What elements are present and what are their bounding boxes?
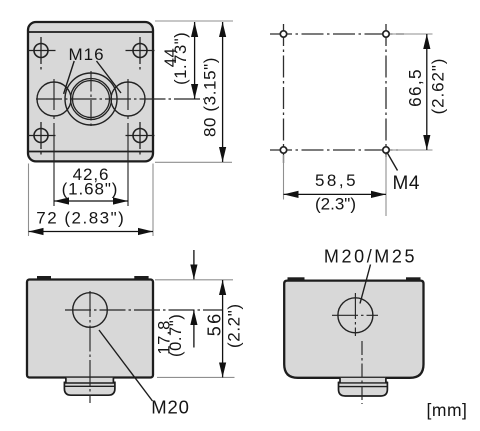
- svg-text:(2.62"): (2.62"): [429, 58, 448, 115]
- vertical centerline left hole column: [283, 24, 285, 163]
- mounting tab right: [134, 276, 148, 281]
- right side hole: [111, 82, 145, 116]
- center hole M16 outer circle: [65, 73, 117, 125]
- svg-text:M20: M20: [151, 396, 189, 417]
- mounting tab right: [406, 277, 421, 282]
- gland bump line 2: [339, 386, 388, 388]
- gland bump line 1: [65, 382, 115, 384]
- gland bump: [64, 378, 115, 396]
- mounting tab left: [288, 277, 305, 282]
- gland bump line 2: [64, 385, 115, 387]
- box body: [284, 281, 423, 378]
- svg-text:66,5: 66,5: [405, 68, 425, 107]
- extension line bottom right of plate: [155, 161, 232, 163]
- drill hole top-right: [383, 31, 389, 37]
- vertical centerline right hole column: [385, 24, 387, 157]
- svg-text:58,5: 58,5: [315, 171, 358, 190]
- svg-text:(1.73"): (1.73"): [172, 32, 190, 85]
- dimension 17.8 lower line: [193, 310, 195, 348]
- dimension line 72: [29, 231, 154, 233]
- horizontal centerline of hole: [332, 314, 378, 316]
- dimension 17.8 upper line: [193, 250, 195, 280]
- leader M4: [387, 152, 398, 171]
- gland bump: [339, 378, 388, 396]
- dimension line 58.5: [284, 193, 387, 195]
- svg-text:[mm]: [mm]: [427, 400, 468, 420]
- vertical centerline center hole: [90, 71, 92, 127]
- extension line 72 left: [28, 164, 30, 237]
- extension line 56 top: [155, 279, 233, 281]
- drill hole bottom-left: [280, 147, 286, 153]
- leader M20/M25: [360, 265, 371, 304]
- vertical centerline through gland: [361, 341, 363, 404]
- center hole thread ring outer: [71, 79, 112, 120]
- extension line 72 right: [152, 164, 154, 237]
- svg-text:M20/M25: M20/M25: [324, 247, 417, 267]
- leader M16 to right hole: [97, 61, 122, 93]
- svg-text:80 (3.15"): 80 (3.15"): [201, 57, 220, 137]
- vertical centerline of box: [89, 291, 91, 403]
- extension line 58.5 right: [385, 155, 387, 216]
- svg-text:(1.68"): (1.68"): [62, 180, 119, 199]
- drill hole top-left: [280, 31, 286, 37]
- cable entry hole M20/M25: [338, 298, 373, 333]
- left side hole: [37, 82, 71, 116]
- svg-text:M4: M4: [393, 173, 420, 194]
- extension line 66.5 top: [390, 33, 433, 35]
- horizontal centerline bottom hole row: [270, 149, 398, 151]
- extension line 66.5 bottom: [390, 149, 433, 151]
- svg-text:(2.3"): (2.3"): [315, 195, 356, 214]
- vertical centerline left hole / extension to 42.6 dim: [53, 79, 55, 110]
- plate top band line: [29, 31, 153, 33]
- svg-text:(0.7"): (0.7"): [167, 314, 185, 357]
- svg-text:56: 56: [205, 311, 225, 336]
- center hole thread ring inner: [73, 81, 110, 118]
- dimension line 80: [222, 22, 224, 162]
- mounting tab left: [37, 276, 51, 281]
- dimension line 66.5: [426, 34, 428, 150]
- horizontal centerline top hole row: [270, 33, 404, 35]
- leader M20: [99, 330, 153, 401]
- dimension line 56: [222, 280, 224, 377]
- gland bump line 1: [339, 382, 388, 384]
- corner hole bottom-left: [28, 122, 56, 155]
- extension line top right of plate: [155, 20, 233, 22]
- cable entry hole M20: [73, 293, 108, 328]
- box body: [27, 280, 153, 378]
- svg-text:(2.2"): (2.2"): [225, 303, 244, 348]
- vertical centerline right hole / extension to 42.6 dim: [127, 79, 129, 110]
- dimension line 44: [194, 22, 196, 99]
- corner hole top-left: [28, 37, 56, 70]
- plate body: [28, 22, 153, 161]
- drill hole bottom-right: [383, 147, 389, 153]
- plate bottom band line: [29, 151, 153, 153]
- horizontal centerline through hole: [65, 309, 223, 311]
- dimension line 42.6: [54, 200, 128, 202]
- svg-text:72 (2.83"): 72 (2.83"): [36, 209, 125, 228]
- leader M16 to left hole: [64, 61, 75, 94]
- corner hole bottom-right: [126, 122, 155, 155]
- extension line 58.5 left: [283, 155, 285, 200]
- horizontal centerline through holes: [36, 98, 204, 100]
- vertical centerline of hole: [354, 293, 356, 336]
- corner hole top-right: [126, 37, 155, 70]
- extension line 56 bottom: [157, 376, 235, 378]
